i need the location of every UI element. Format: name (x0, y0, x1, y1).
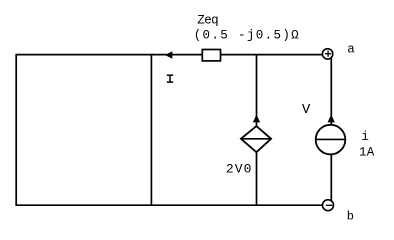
arrowhead of dependent source (points up) (253, 115, 260, 123)
svg-text:V: V (302, 102, 311, 118)
terminal b (circle with -) (323, 200, 334, 211)
resistor Zeq (impedance box on top wire) (202, 50, 220, 61)
wire middle branch (dependent source) (256, 55, 258, 127)
wire bottom (y=205.2 from network box to terminal b) (16, 204, 323, 206)
arrowhead of current source i (points up) (328, 115, 335, 123)
svg-text:b: b (347, 210, 354, 224)
arrowhead current I (points left on top wire) (165, 51, 172, 59)
network box (left rectangle) (16, 54, 151, 206)
label I (167, 75, 173, 82)
wire right branch upper (terminal a to current source) (330, 56, 332, 127)
svg-text:Zeq: Zeq (197, 13, 219, 27)
wire middle branch lower (256, 152, 258, 205)
dependent source G1 (diamond, 2V0) (241, 126, 271, 152)
terminal a (circle with +) (322, 49, 332, 59)
current source I1 (circle, 1A) (316, 125, 346, 155)
wire right branch lower (current source to terminal b) (330, 155, 332, 205)
svg-text:(0.5 -j0.5)Ω: (0.5 -j0.5)Ω (194, 28, 299, 42)
svg-text:a: a (347, 43, 355, 57)
svg-text:1A: 1A (359, 145, 375, 159)
svg-text:2V0: 2V0 (226, 161, 252, 176)
svg-text:i: i (361, 130, 369, 144)
wire top (y=54.5 from network box to terminal a) (16, 54, 322, 56)
